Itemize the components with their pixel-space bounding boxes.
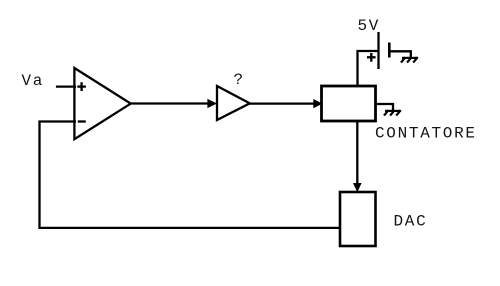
wire DAC feedback to op-amp inverting input (40, 122, 341, 228)
op-amp U1 (74, 68, 130, 139)
buffer amplifier A1 (217, 86, 250, 120)
svg-text:?: ? (234, 71, 245, 89)
battery positive plate (long) (377, 32, 379, 69)
ground symbol at battery (401, 57, 418, 62)
svg-text:DAC: DAC (394, 213, 428, 231)
ground symbol at counter (384, 110, 401, 115)
op-amp plus input marker (77, 82, 86, 91)
arrowhead into counter (314, 100, 322, 108)
battery negative plate (short) (388, 43, 391, 58)
wire op-amp output to buffer (130, 102, 215, 104)
wire counter bottom to DAC (356, 121, 358, 185)
wire counter top to 5V battery (358, 51, 378, 86)
arrowhead into DAC (354, 184, 361, 192)
battery plus marker (367, 53, 376, 62)
svg-text:CONTATORE: CONTATORE (375, 125, 477, 143)
wire Va to op-amp non-inverting input (56, 85, 76, 87)
wire counter right pin to ground (376, 104, 394, 111)
wire battery negative to ground (389, 51, 411, 58)
svg-text:5V: 5V (358, 17, 381, 35)
svg-text:Va: Va (22, 72, 45, 90)
counter box CONTATORE (322, 86, 376, 121)
arrowhead into buffer (208, 100, 216, 108)
op-amp minus input marker (78, 120, 86, 122)
DAC box (340, 192, 376, 246)
wire buffer output to counter (249, 102, 320, 104)
